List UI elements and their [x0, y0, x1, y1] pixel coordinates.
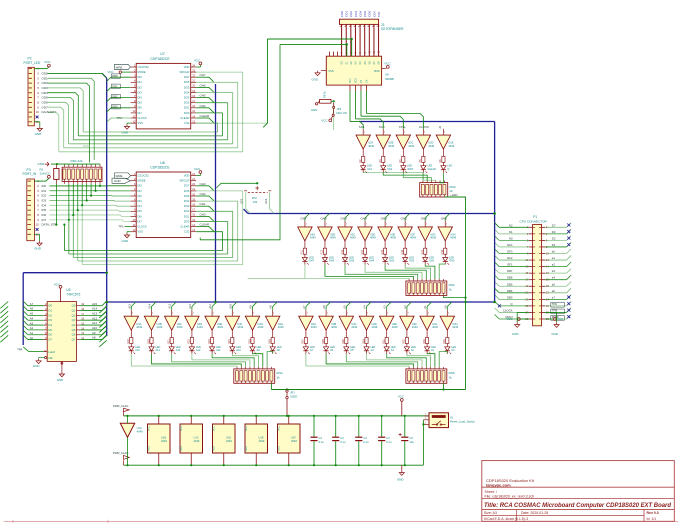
svg-text:4049: 4049 — [137, 430, 143, 434]
svg-text:GND: GND — [114, 179, 122, 183]
svg-text:OH6: OH6 — [329, 260, 335, 263]
svg-text:Title: RCA COSMAC Microboard C: Title: RCA COSMAC Microboard Computer CD… — [484, 502, 671, 509]
svg-text:J3: J3 — [381, 23, 385, 27]
svg-text:R25: R25 — [248, 339, 251, 344]
svg-text:ID7: ID7 — [42, 218, 47, 222]
svg-text:DO3: DO3 — [184, 96, 190, 100]
wire — [227, 103, 229, 140]
svg-text:A12: A12 — [92, 316, 98, 320]
svg-text:DI7: DI7 — [138, 111, 143, 115]
svg-text:N0: N0 — [509, 236, 513, 240]
svg-text:GND: GND — [122, 131, 130, 135]
svg-text:EF3: EF3 — [507, 250, 513, 254]
svg-text:DO7: DO7 — [184, 184, 190, 188]
wire — [64, 147, 238, 149]
svg-text:4049: 4049 — [278, 325, 284, 329]
wire — [405, 265, 430, 280]
svg-text:SC1: SC1 — [359, 125, 365, 129]
svg-text:DEC ON: DEC ON — [337, 111, 348, 115]
svg-text:Q0: Q0 — [72, 304, 76, 308]
svg-text:VSS: VSS — [138, 121, 144, 125]
capacitor C4 0.1u — [378, 415, 392, 467]
svg-text:DI4: DI4 — [138, 204, 143, 208]
wire — [196, 86, 209, 88]
buffer U3G with LED OH1 — [418, 217, 437, 265]
svg-text:IOD2: IOD2 — [349, 10, 353, 17]
svg-text:DO5: DO5 — [184, 194, 190, 198]
svg-text:SC1: SC1 — [367, 168, 372, 171]
svg-text:OD7: OD7 — [42, 105, 49, 109]
svg-text:4049: 4049 — [310, 236, 316, 240]
svg-text:4049: 4049 — [259, 439, 265, 443]
svg-text:A14: A14 — [148, 303, 152, 308]
power flag PWR_FLAG on VCC rail — [113, 404, 129, 416]
ground at RN1 common — [45, 162, 50, 166]
svg-text:4049: 4049 — [432, 325, 438, 329]
wire long horizontals into U10 region — [268, 38, 352, 40]
svg-text:0.1u: 0.1u — [363, 440, 369, 444]
svg-text:R30: R30 — [362, 339, 365, 344]
svg-text:4049: 4049 — [226, 439, 232, 443]
svg-text:DI1: DI1 — [138, 189, 143, 193]
svg-text:CLEAR: CLEAR — [180, 116, 189, 120]
wire — [346, 354, 417, 367]
svg-text:OH3: OH3 — [200, 182, 206, 186]
wire +LED rail under RN4 RN5 — [270, 383, 272, 389]
svg-text:0.1u: 0.1u — [340, 440, 346, 444]
svg-text:GND: GND — [397, 477, 403, 481]
buffer U4F with LED A10 — [225, 303, 244, 354]
wire U5 outputs to address bus — [80, 305, 102, 307]
svg-text:OH1: OH1 — [429, 260, 435, 263]
capacitor C1 0.1u — [310, 415, 324, 467]
IC spare gate U1D — [213, 415, 236, 467]
svg-text:VLED: VLED — [290, 394, 297, 398]
capacitor C3 0.1u — [355, 415, 369, 467]
svg-text:DB5: DB5 — [507, 282, 513, 286]
buffer U3D with LED OH4 — [358, 217, 377, 265]
svg-text:A13: A13 — [168, 303, 172, 308]
svg-text:4049: 4049 — [136, 325, 142, 329]
svg-text:R22: R22 — [188, 339, 191, 344]
wire — [217, 123, 219, 132]
svg-text:Q: Q — [447, 168, 449, 171]
svg-text:SR/CLR: SR/CLR — [180, 179, 190, 183]
svg-text:A11: A11 — [216, 349, 221, 352]
global label WRE at U7 pin 1 — [115, 64, 131, 69]
svg-text:DB1: DB1 — [112, 84, 118, 88]
svg-text:DI5: DI5 — [138, 209, 143, 213]
svg-text:SC0: SC0 — [387, 168, 392, 171]
buffer U4G with LED A9 — [245, 305, 264, 354]
svg-text:R24: R24 — [228, 339, 231, 344]
svg-text:D1: D1 — [48, 309, 52, 313]
svg-text:+LED: +LED — [450, 193, 458, 197]
wire — [82, 264, 243, 266]
svg-text:XT: XT — [360, 79, 363, 83]
wire — [499, 259, 529, 261]
svg-text:OH1: OH1 — [200, 202, 206, 206]
wire — [232, 211, 234, 257]
jumper JP1 VLED — [286, 390, 298, 418]
svg-text:OH7: OH7 — [309, 260, 315, 263]
svg-text:VSS: VSS — [245, 446, 248, 451]
wire bundle below U7 extras — [83, 145, 90, 147]
svg-text:IOD1: IOD1 — [345, 10, 349, 17]
wire — [545, 298, 566, 300]
svg-text:DB2: DB2 — [112, 95, 118, 99]
wire R8 to decode enable — [331, 100, 334, 102]
buffer U4E with LED A3 — [380, 305, 399, 354]
wire — [232, 354, 258, 367]
svg-text:EF2: EF2 — [507, 256, 513, 260]
svg-text:4049: 4049 — [217, 325, 223, 329]
wire — [63, 225, 65, 251]
svg-text:CDP1852CE: CDP1852CE — [150, 165, 170, 169]
wire — [232, 93, 234, 144]
connector P3 PORT_IN — [23, 168, 57, 241]
wire +LED from RN3 common — [444, 197, 465, 390]
svg-text:DATA_STB: DATA_STB — [42, 223, 57, 227]
wire — [545, 279, 566, 281]
wire — [196, 195, 209, 197]
wire — [499, 272, 529, 274]
wire — [50, 199, 131, 202]
svg-text:Id: 1/1: Id: 1/1 — [647, 517, 657, 521]
wire — [196, 92, 233, 94]
svg-text:C5: C5 — [409, 436, 413, 440]
IC U5 74HC573 — [44, 288, 85, 361]
resistor network RN5 — [406, 367, 455, 383]
svg-text:IOD0: IOD0 — [340, 10, 344, 17]
svg-text:4049: 4049 — [372, 325, 378, 329]
svg-text:A5: A5 — [30, 312, 34, 316]
wire — [69, 253, 228, 255]
wire — [423, 173, 435, 181]
svg-text:TPA: TPA — [17, 347, 22, 351]
svg-text:ID2: ID2 — [42, 194, 47, 198]
buffer U2B with LED SC0 — [376, 125, 395, 173]
svg-text:EF4: EF4 — [264, 198, 268, 203]
svg-text:OH5: OH5 — [200, 94, 206, 98]
svg-text:A12: A12 — [188, 303, 192, 308]
wire — [545, 285, 566, 287]
svg-text:4049: 4049 — [291, 439, 297, 443]
svg-text:EF4: EF4 — [507, 243, 513, 247]
svg-text:a2: a2 — [552, 263, 556, 267]
svg-text:tangype.com: tangype.com — [486, 482, 511, 487]
wire — [545, 233, 566, 235]
power VCC at P1 left — [521, 318, 529, 320]
wire — [48, 93, 79, 136]
svg-text:VCC: VCC — [148, 426, 151, 431]
svg-text:10k: 10k — [253, 200, 258, 204]
svg-text:IOD5: IOD5 — [363, 10, 367, 17]
svg-text:A14: A14 — [92, 307, 98, 311]
svg-text:SC0: SC0 — [355, 78, 358, 83]
svg-text:GND: GND — [551, 332, 557, 336]
svg-text:Q3: Q3 — [72, 318, 76, 322]
svg-text:0.1u: 0.1u — [319, 440, 325, 444]
svg-text:R26: R26 — [269, 339, 272, 344]
ground exit at rail — [401, 465, 403, 470]
svg-text:MODE: MODE — [138, 70, 146, 74]
wire — [345, 265, 418, 280]
power VCC at U7 MODE pin — [119, 71, 121, 73]
svg-text:KiCad E.D.A. kicad (5.1.5)-3: KiCad E.D.A. kicad (5.1.5)-3 — [484, 517, 528, 521]
svg-text:CLOCK: CLOCK — [419, 125, 429, 129]
svg-text:A9: A9 — [92, 331, 96, 335]
svg-text:GND: GND — [122, 239, 130, 243]
svg-text:VSS: VSS — [278, 446, 281, 451]
wire — [68, 220, 70, 254]
svg-text:10: 10 — [36, 223, 40, 227]
ground at U8 VSS — [127, 231, 131, 233]
svg-text:Q5: Q5 — [72, 328, 76, 332]
svg-text:WAIT: WAIT — [407, 168, 414, 171]
svg-text:VCC: VCC — [506, 317, 513, 321]
svg-text:DB3: DB3 — [507, 295, 513, 299]
svg-text:A5: A5 — [342, 305, 346, 309]
svg-text:IOD7: IOD7 — [372, 10, 376, 17]
jumper JP2 10k — [239, 186, 271, 204]
IC spare gate U1B — [148, 415, 171, 467]
svg-text:10: 10 — [36, 110, 40, 114]
svg-text:OH0: OH0 — [200, 212, 206, 216]
buffer U4C with LED A13 — [165, 303, 184, 354]
power VCC at U8 pin 24 — [196, 175, 200, 177]
resistor network RN4 — [234, 367, 283, 383]
wire — [64, 250, 222, 252]
wire — [545, 318, 566, 320]
svg-text:A0: A0 — [30, 336, 34, 340]
wire — [81, 205, 83, 264]
buffer U4D with LED A4 — [359, 305, 378, 354]
wire — [73, 257, 232, 259]
wire — [545, 266, 566, 268]
svg-text:CDP1852CE: CDP1852CE — [150, 57, 170, 61]
wire — [439, 264, 445, 279]
svg-text:VSS: VSS — [213, 446, 216, 451]
buffer U4B with LED A6 — [319, 305, 338, 354]
svg-text:GND: GND — [311, 108, 317, 112]
svg-text:ID6: ID6 — [42, 213, 47, 217]
svg-text:R23: R23 — [208, 339, 211, 344]
svg-text:P3: P3 — [27, 168, 31, 172]
svg-text:GND: GND — [35, 132, 43, 136]
ground at U10 VSS — [321, 70, 327, 72]
svg-text:VCC: VCC — [44, 171, 51, 175]
buffer U2A with LED SC1 — [356, 125, 375, 173]
buffer U3F with LED OH2 — [398, 217, 417, 265]
svg-text:D2: D2 — [48, 313, 52, 317]
global label WRE at U8 pin 1 — [115, 173, 131, 178]
switch S1 Reset Load — [423, 413, 475, 428]
svg-text:D3: D3 — [552, 230, 556, 234]
wire — [131, 354, 237, 367]
svg-text:ID1: ID1 — [42, 189, 47, 193]
svg-text:OH5: OH5 — [349, 260, 355, 263]
power VCC at U10 VDD — [382, 68, 387, 70]
svg-text:U8: U8 — [160, 161, 165, 165]
wire — [196, 205, 209, 207]
buffer U4F with LED A2 — [400, 305, 419, 354]
svg-text:CLEAR: CLEAR — [200, 114, 210, 118]
svg-text:IOD6: IOD6 — [368, 10, 372, 17]
wire — [196, 221, 228, 223]
svg-text:WRE: WRE — [116, 66, 123, 70]
wire — [545, 259, 566, 261]
svg-text:DB4: DB4 — [507, 289, 513, 293]
svg-text:4049: 4049 — [194, 439, 200, 443]
svg-text:4049: 4049 — [330, 236, 336, 240]
svg-text:Sheet: /: Sheet: / — [485, 490, 497, 494]
svg-text:R21: R21 — [168, 339, 171, 344]
svg-text:CS2: CS2 — [184, 230, 190, 234]
page frame bottom line — [4, 520, 678, 522]
wire bus entries at left page edge — [0, 302, 8, 309]
svg-text:A0: A0 — [443, 305, 447, 309]
wire — [59, 151, 243, 153]
ground at U5 pin 10 — [61, 361, 63, 371]
svg-text:VCC: VCC — [44, 60, 51, 64]
svg-text:I/O EXPANDER: I/O EXPANDER — [381, 27, 404, 31]
svg-text:DO7: DO7 — [184, 75, 190, 79]
svg-text:4049: 4049 — [351, 325, 357, 329]
svg-text:VSS: VSS — [180, 446, 183, 451]
wire — [192, 354, 250, 367]
svg-text:4049: 4049 — [390, 236, 396, 240]
IC spare gate U1E — [245, 415, 268, 467]
svg-text:4049: 4049 — [452, 325, 458, 329]
svg-text:4049: 4049 — [430, 236, 436, 240]
svg-text:DI2: DI2 — [138, 194, 143, 198]
buffer U4B with LED A14 — [144, 303, 163, 354]
buffer U4A with LED A15 — [124, 303, 143, 354]
wire — [50, 210, 131, 211]
svg-text:A7: A7 — [302, 305, 306, 309]
svg-text:CK: CK — [366, 79, 369, 83]
svg-text:PWR_FLAG: PWR_FLAG — [113, 451, 128, 455]
wire — [383, 173, 427, 181]
svg-text:74HC573: 74HC573 — [66, 293, 80, 297]
svg-text:WRE: WRE — [116, 174, 123, 178]
svg-text:A13: A13 — [92, 311, 98, 315]
svg-text:DB6: DB6 — [507, 276, 513, 280]
wire U10 bottom pins to gate row1 feeds — [349, 91, 351, 122]
svg-text:A10: A10 — [92, 326, 98, 330]
svg-text:DO1: DO1 — [184, 214, 190, 218]
svg-text:DI5: DI5 — [138, 101, 143, 105]
svg-text:C2: C2 — [340, 436, 344, 440]
wire — [237, 82, 239, 148]
wire vertical x=267.5 — [267, 39, 269, 123]
wire RN2 common — [444, 295, 466, 297]
power flag PWR_FLAG on GND rail — [113, 451, 129, 465]
wire — [48, 98, 74, 140]
svg-text:VSS: VSS — [138, 230, 144, 234]
svg-text:1k: 1k — [277, 375, 281, 379]
svg-text:XTAL: XTAL — [399, 125, 407, 129]
svg-text:DI0: DI0 — [138, 184, 143, 188]
svg-text:Latch: Latch — [48, 350, 55, 354]
buffer U4C with LED A5 — [339, 305, 358, 354]
svg-text:R11: R11 — [301, 250, 304, 255]
wire — [107, 77, 112, 81]
bus horizontal at y=302 — [107, 301, 496, 303]
wire — [196, 122, 217, 124]
svg-text:TPA: TPA — [552, 302, 557, 306]
wire — [212, 354, 254, 367]
wire — [499, 292, 529, 294]
svg-text:A1: A1 — [30, 331, 34, 335]
svg-text:A4: A4 — [30, 316, 34, 320]
svg-text:D7: D7 — [552, 223, 556, 227]
wire — [427, 354, 435, 367]
svg-text:4049: 4049 — [258, 325, 264, 329]
jumper JP3 DEC ON — [331, 103, 347, 119]
svg-text:OE: OE — [48, 356, 52, 360]
buffer U4A with LED A7 — [299, 305, 318, 354]
svg-text:D3: D3 — [48, 318, 52, 322]
svg-text:D6: D6 — [48, 333, 52, 337]
wire — [107, 108, 112, 112]
svg-text:VCC: VCC — [321, 118, 328, 122]
svg-text:VCC: VCC — [194, 167, 201, 171]
svg-text:OH2: OH2 — [200, 192, 206, 196]
svg-text:4049: 4049 — [350, 236, 356, 240]
svg-text:Q4: Q4 — [72, 323, 76, 327]
svg-text:U5: U5 — [66, 288, 70, 292]
IC U7 CDP1852CE — [131, 52, 197, 129]
wire — [222, 232, 224, 251]
svg-text:CLEAR: CLEAR — [200, 223, 210, 227]
svg-text:A2: A2 — [403, 305, 407, 309]
connector P1 CPU CONNECTOR — [520, 215, 550, 326]
bus vertical at x=106.7 — [106, 78, 108, 336]
wire — [196, 117, 209, 119]
svg-text:0.1u: 0.1u — [386, 440, 392, 444]
svg-text:A12: A12 — [196, 349, 201, 352]
svg-text:A7: A7 — [30, 302, 34, 306]
wire — [325, 265, 413, 280]
power VCC at U5 — [59, 285, 62, 288]
wire — [50, 185, 131, 187]
svg-text:OH0: OH0 — [449, 260, 455, 263]
svg-text:U9: U9 — [385, 73, 389, 77]
wire — [196, 112, 222, 114]
wire TP2 entry — [107, 118, 112, 122]
svg-text:A3: A3 — [383, 305, 387, 309]
wire — [73, 139, 227, 141]
svg-text:GND: GND — [38, 162, 46, 166]
resistor R1 22k — [40, 164, 60, 184]
svg-text:D5: D5 — [48, 328, 52, 332]
wire — [385, 265, 426, 280]
wire rails to switch — [422, 420, 424, 465]
svg-text:D0: D0 — [48, 304, 52, 308]
wire — [440, 173, 443, 183]
junction dots RN1 to ID wires — [99, 184, 101, 186]
buffer U3E with LED OH3 — [378, 217, 397, 265]
wire — [196, 215, 209, 217]
wire — [196, 76, 209, 78]
power VCC at U7 pin 24 — [196, 66, 200, 68]
svg-text:VSS: VSS — [148, 446, 151, 451]
svg-text:VCC: VCC — [108, 70, 114, 74]
svg-text:4049: 4049 — [311, 325, 317, 329]
svg-text:OD0: OD0 — [42, 71, 49, 75]
